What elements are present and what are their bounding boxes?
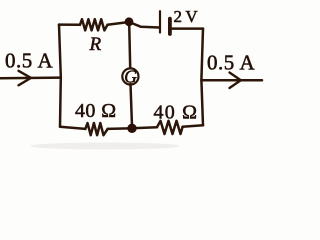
wire battery to top-right corner bbox=[170, 27, 203, 30]
wire bottom node to resistor R3 bbox=[132, 127, 157, 128]
battery BT1 short plate (-) bbox=[168, 19, 172, 34]
wire output right bbox=[201, 79, 262, 82]
wire left vertical bbox=[59, 25, 61, 127]
svg-text:0.5 A: 0.5 A bbox=[207, 51, 255, 75]
wire top node to battery bbox=[129, 22, 159, 28]
arrowhead input current bbox=[19, 71, 32, 86]
battery BT1 long plate (+) bbox=[159, 11, 161, 32]
wire top-left segment bbox=[59, 23, 80, 26]
galvanometer G body bbox=[122, 68, 138, 84]
svg-text:40 Ω: 40 Ω bbox=[75, 100, 116, 122]
svg-text:2 V: 2 V bbox=[174, 7, 199, 26]
wire input left bbox=[0, 76, 61, 79]
wire galvanometer to bottom node bbox=[131, 84, 133, 126]
wire bottom-left segment bbox=[60, 127, 85, 129]
node bottom junction bbox=[127, 124, 136, 133]
resistor R3 (40 ohm, bottom right) bbox=[157, 121, 183, 134]
wire resistor to bottom-right corner bbox=[183, 125, 204, 127]
svg-text:0.5 A: 0.5 A bbox=[5, 49, 53, 73]
wire to bottom node bbox=[108, 127, 132, 130]
svg-text:40 Ω: 40 Ω bbox=[154, 102, 199, 124]
wire top node to galvanometer bbox=[129, 24, 130, 68]
scan shadow bottom bbox=[30, 143, 180, 150]
resistor R2 (40 ohm, bottom left) bbox=[85, 123, 107, 135]
arrowhead output current bbox=[230, 73, 241, 89]
svg-text:G: G bbox=[124, 66, 137, 86]
resistor R1 (R, top) bbox=[80, 19, 108, 30]
svg-text:R: R bbox=[89, 34, 102, 55]
node top junction bbox=[125, 17, 134, 26]
wire resistor to top node bbox=[108, 22, 130, 25]
wire right vertical bbox=[201, 29, 203, 126]
